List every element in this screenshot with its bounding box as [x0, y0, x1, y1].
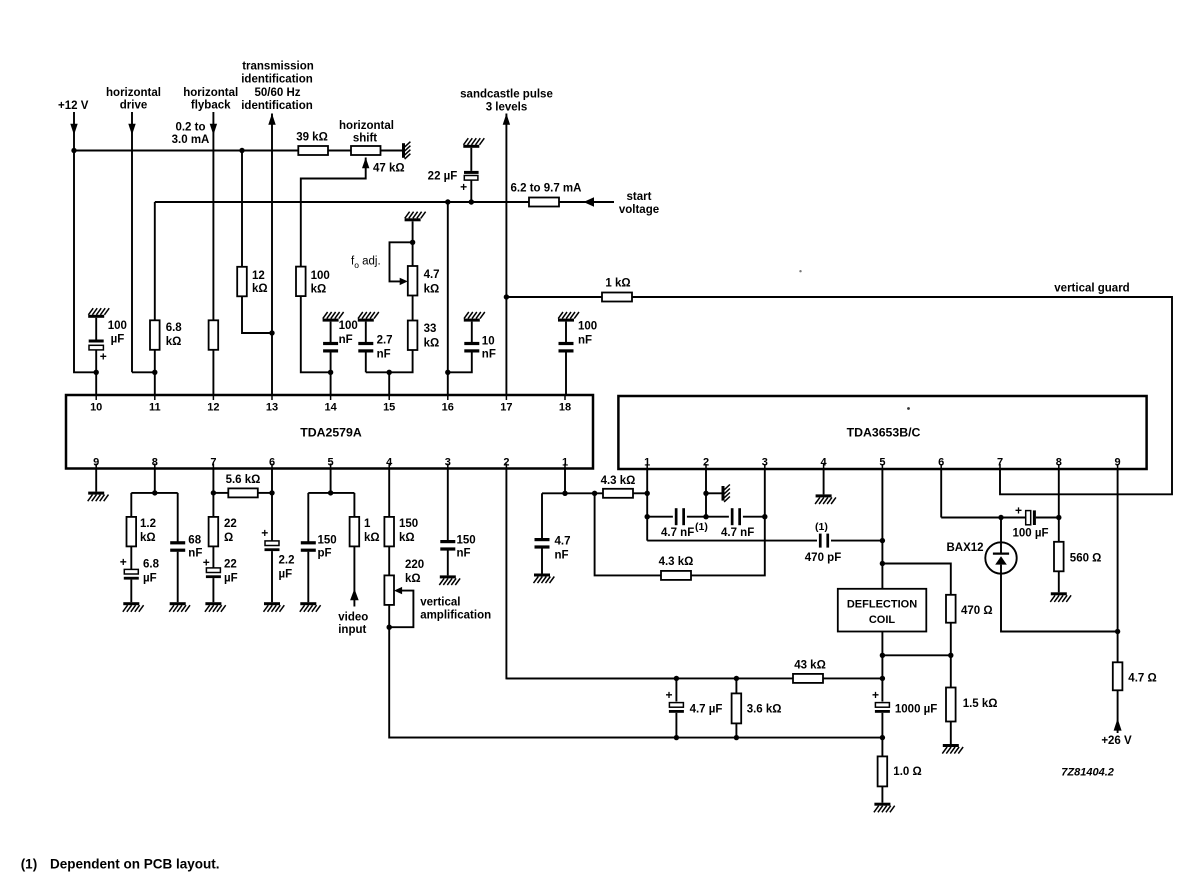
svg-text:+: +: [460, 180, 467, 194]
junction pin 7 node: [211, 490, 216, 495]
wire 1.5k stub: [950, 655, 952, 688]
wire pin7 to 5.6k: [213, 492, 228, 494]
wire 4.7uF top stub: [675, 678, 677, 701]
svg-text:4.3 kΩ: 4.3 kΩ: [601, 475, 636, 487]
wire 1000uF to rail B: [881, 713, 883, 738]
wire ground to 4.7k pot: [412, 221, 414, 266]
sandcastle output arrow: [503, 114, 510, 125]
svg-text:horizontal: horizontal: [183, 87, 238, 99]
label + of 22uF pin7: [203, 556, 210, 570]
junction Q8 100uF: [1056, 515, 1061, 520]
resistor 150 kOhm: [384, 517, 394, 547]
svg-text:10: 10: [90, 402, 102, 414]
wire Q8 vertical: [1058, 469, 1060, 542]
wire horizontal drive to pin 11: [132, 371, 155, 373]
svg-text:4.7 nF: 4.7 nF: [661, 527, 694, 539]
capacitor 470 pF: [819, 534, 829, 548]
resistor 1 kOhm guard: [602, 293, 632, 302]
chassis ground at Q2: [722, 485, 730, 502]
node sandcastle pulse label: [460, 89, 553, 114]
resistor 5.6 kOhm: [228, 488, 257, 497]
wire 100nF to pin 18: [565, 352, 567, 395]
svg-text:drive: drive: [120, 100, 148, 112]
node +12V supply label: [58, 100, 89, 112]
svg-text:6.8: 6.8: [166, 322, 183, 334]
svg-text:4.7: 4.7: [555, 536, 571, 548]
svg-text:shift: shift: [353, 133, 377, 145]
svg-text:2: 2: [703, 457, 709, 469]
svg-text:1: 1: [562, 457, 568, 469]
junction 3.6k rail A: [734, 676, 739, 681]
+12V input arrow: [70, 124, 77, 135]
junction pin 10 node: [94, 370, 99, 375]
wire 68nF to ground: [177, 552, 179, 603]
wire Q9 vertical: [1117, 469, 1119, 662]
svg-text:3 levels: 3 levels: [486, 101, 528, 113]
wire 100nF to pin 14 node: [330, 352, 332, 372]
wire BAX12 anode: [1000, 518, 1002, 543]
capacitor 10 nF: [464, 342, 479, 353]
wire resistor to pin 12: [212, 350, 214, 395]
svg-text:150: 150: [318, 535, 337, 547]
wire 6.8k to pin 11 node: [154, 350, 156, 373]
junction pin 1 node: [562, 491, 567, 496]
label 2.7 nF: [377, 335, 393, 361]
capacitor 150 nF: [440, 540, 455, 551]
svg-text:horizontal: horizontal: [339, 120, 394, 132]
svg-text:5: 5: [328, 457, 334, 469]
wire pin 15 stub: [388, 372, 390, 395]
resistor start current: [529, 198, 559, 207]
svg-text:16: 16: [442, 402, 454, 414]
label 47 kOhm: [373, 163, 405, 175]
svg-text:1.5 kΩ: 1.5 kΩ: [963, 698, 998, 710]
wire to 68nF: [177, 493, 179, 542]
wire 100uF to Q8: [1036, 517, 1059, 519]
wire tee down to second 4.3k: [595, 493, 661, 575]
label 4.7 nF b: [721, 527, 754, 539]
capacitor 2.2 uF electrolytic: [265, 541, 280, 551]
wire pin 14 stub: [330, 372, 332, 395]
resistor series pin 12 (unlabelled): [209, 320, 219, 350]
junction Q1 4.7nF row: [645, 514, 650, 519]
label 560 Ohm: [1070, 553, 1102, 565]
junction bus1 / 12k resistor: [239, 148, 244, 153]
horizontal flyback input arrow: [210, 124, 217, 135]
speck above TDA3653: [907, 407, 910, 410]
capacitor 4.7 nF pin1: [535, 538, 550, 549]
wire 22uF to bus2: [470, 180, 472, 202]
svg-text:14: 14: [324, 402, 337, 414]
svg-text:3.0 mA: 3.0 mA: [172, 134, 210, 146]
potentiometer 220 kOhm: [384, 575, 394, 605]
node horizontal drive label: [106, 87, 161, 112]
label 1.5 kOhm: [963, 698, 998, 710]
label 7Z81404.2: [1061, 767, 1114, 779]
ground 2.2uF: [264, 602, 285, 612]
label 22 Ohm: [224, 518, 237, 544]
junction Q5 470R top tap: [880, 561, 885, 566]
svg-text:1 kΩ: 1 kΩ: [605, 278, 630, 290]
wire pin 2 down and right: [506, 469, 676, 679]
svg-text:100: 100: [578, 321, 597, 333]
transmission identification output arrow: [268, 114, 275, 125]
svg-text:1000 µF: 1000 µF: [895, 703, 937, 715]
capacitor 22 uF electrolytic: [464, 171, 479, 180]
junction Q1 node A: [645, 491, 650, 496]
resistor 1.5 kOhm: [946, 688, 956, 722]
diode BAX12: [985, 542, 1016, 573]
wire pin 6 vertical: [271, 469, 273, 542]
wire gnd to 100nF pin18: [565, 322, 567, 342]
svg-text:kΩ: kΩ: [424, 337, 440, 349]
wire pin 3 stub: [447, 469, 449, 541]
label 100 uF horizontal: [1012, 528, 1048, 540]
svg-text:pF: pF: [318, 548, 332, 560]
wire 220k wiper loop: [389, 591, 413, 628]
op-amp IC U2 TDA3653B/C box: [618, 396, 1146, 469]
resistor 560 Ohm: [1054, 542, 1064, 572]
svg-text:12: 12: [252, 270, 265, 282]
svg-text:+: +: [665, 688, 672, 702]
label 22 uF: [428, 171, 458, 183]
svg-text:kΩ: kΩ: [424, 283, 440, 295]
label 4.7 kOhm: [424, 269, 440, 295]
label 6.2 to 9.7 mA: [511, 183, 582, 195]
svg-text:0.2 to: 0.2 to: [175, 122, 205, 134]
svg-text:Ω: Ω: [224, 532, 233, 544]
wire Q6 to 100uF: [941, 517, 1026, 519]
svg-text:150: 150: [399, 518, 418, 530]
junction Q9 BAX12: [1115, 629, 1120, 634]
wire rail B horizontal: [389, 737, 882, 739]
svg-text:17: 17: [500, 402, 512, 414]
svg-text:8: 8: [1056, 457, 1062, 469]
wire 33k down to pin15 row: [366, 350, 413, 372]
svg-text:input: input: [338, 624, 366, 636]
wire +12V horizontal bus: [74, 150, 298, 152]
node horizontal flyback label: [183, 87, 238, 112]
svg-text:+: +: [872, 688, 879, 702]
wire pin 8 stub: [154, 469, 156, 493]
wire coil bottom to rail A: [881, 632, 883, 679]
svg-text:amplification: amplification: [420, 610, 491, 622]
svg-text:33: 33: [424, 323, 437, 335]
svg-text:kΩ: kΩ: [140, 532, 156, 544]
ground above 100nF pin18: [558, 312, 579, 322]
wire 470R bottom: [882, 623, 950, 656]
wire sandcastle vertical pin 17: [505, 114, 507, 396]
junction 470R/1.5k node: [948, 653, 953, 658]
svg-text:Dependent on PCB layout.: Dependent on PCB layout.: [50, 857, 220, 872]
wiper arrow 220k pot: [394, 587, 402, 594]
label + of 2.2uF: [261, 526, 268, 540]
junction pin 15 node: [387, 370, 392, 375]
svg-text:nF: nF: [339, 334, 353, 346]
svg-text:kΩ: kΩ: [399, 532, 415, 544]
svg-text:4.7 µF: 4.7 µF: [690, 703, 723, 715]
wire 560R to ground: [1058, 571, 1060, 592]
capacitor 4.7 nF a: [675, 508, 685, 525]
svg-text:18: 18: [559, 402, 571, 414]
svg-text:identification: identification: [241, 74, 313, 86]
svg-text:4.7: 4.7: [424, 269, 440, 281]
node transmission identification label: [241, 61, 314, 113]
svg-text:100 µF: 100 µF: [1012, 528, 1048, 540]
pin numbers TDA3653B/C: [644, 457, 1121, 469]
junction 3.6k rail B: [734, 735, 739, 740]
svg-text:identification: identification: [241, 100, 313, 112]
svg-text:4: 4: [821, 457, 828, 469]
wire gnd to 100nF: [330, 322, 332, 342]
svg-text:+: +: [1015, 504, 1022, 518]
ground pin 9: [88, 492, 109, 502]
junction bus2 / 22uF: [469, 199, 474, 204]
svg-text:µF: µF: [224, 573, 238, 585]
wire 1.0R to ground: [881, 786, 883, 802]
svg-text:1.0 Ω: 1.0 Ω: [893, 766, 921, 778]
wire pin 7 stub: [212, 469, 214, 517]
svg-text:sandcastle pulse: sandcastle pulse: [460, 89, 553, 101]
svg-text:COIL: COIL: [869, 614, 896, 626]
wire 10nF to pin 16: [448, 352, 472, 372]
label 150 kOhm: [399, 518, 418, 544]
label vertical amplification: [420, 597, 491, 622]
svg-text:4.7 nF: 4.7 nF: [721, 527, 754, 539]
label 100 kOhm: [311, 270, 330, 295]
wire pin 1 stub: [564, 469, 566, 494]
junction pin 8 node: [152, 490, 157, 495]
ground 68nF: [169, 602, 190, 612]
svg-text:video: video: [338, 612, 368, 624]
capacitor 150 pF: [301, 541, 316, 552]
svg-text:39 kΩ: 39 kΩ: [296, 132, 328, 144]
wire Q2 vertical: [705, 469, 707, 517]
capacitor 4.7 nF b: [731, 508, 741, 525]
svg-text:start: start: [627, 191, 652, 203]
resistor 1.2 kOhm: [127, 517, 137, 547]
ground 1.5k: [942, 744, 963, 754]
label 1000 uF: [895, 703, 937, 715]
label 470 pF: [805, 552, 841, 564]
wire +12V vertical drop: [73, 112, 75, 151]
label vertical guard: [1054, 283, 1129, 295]
wire pin 4 down to bottom rail: [389, 605, 676, 738]
wire to 1.2k: [130, 493, 132, 517]
svg-text:6: 6: [938, 457, 944, 469]
label + of 4.7uF: [665, 688, 672, 702]
svg-text:5: 5: [879, 457, 885, 469]
wire pot to chassis ground: [381, 150, 403, 152]
resistor 100 kOhm: [296, 267, 306, 297]
wire 22R to 22uF: [212, 546, 214, 568]
svg-text:220: 220: [405, 559, 424, 571]
junction Q3 4.7nF row: [762, 514, 767, 519]
label 4.7 nF pin1: [555, 536, 571, 562]
wire 4.7nF to ground: [541, 549, 543, 574]
junction 12k / pin 13 line: [269, 330, 274, 335]
wire bus2 horizontal: [155, 201, 529, 203]
svg-text:560 Ω: 560 Ω: [1070, 553, 1102, 565]
label BAX12: [946, 542, 983, 554]
svg-text:13: 13: [266, 402, 278, 414]
ground above 22uF: [463, 138, 484, 148]
svg-text:(1): (1): [695, 521, 708, 533]
+26V supply arrow: [1114, 719, 1122, 731]
node 0.2 to 3.0 mA label: [172, 122, 210, 146]
label 5.6 kOhm: [226, 474, 261, 486]
svg-text:DEFLECTION: DEFLECTION: [847, 599, 917, 611]
junction f0 feedback tap: [410, 240, 415, 245]
junction BAX12 top: [998, 515, 1003, 520]
svg-text:horizontal: horizontal: [106, 87, 161, 99]
svg-text:nF: nF: [377, 348, 391, 360]
junction pin 11 node: [152, 370, 157, 375]
ground above 2.7nF: [358, 312, 379, 322]
junction 4.3k tee: [592, 491, 597, 496]
capacitor 100 nF (pin 14): [323, 342, 338, 353]
wire 470pF row: [647, 540, 817, 542]
ground 6.8uF: [123, 602, 144, 612]
resistor 4.3 kOhm second: [661, 571, 691, 580]
wire pin 11 stub: [154, 372, 156, 395]
wire 100uF to pin 10 node: [95, 350, 97, 372]
label 1.0 Ohm: [893, 766, 921, 778]
svg-text:4.3 kΩ: 4.3 kΩ: [659, 556, 694, 568]
junction 10nF / pin16: [445, 370, 450, 375]
wire to 150pF: [307, 493, 309, 542]
wire rail A horizontal: [506, 677, 882, 679]
op-amp IC U1 TDA2579A box: [66, 395, 593, 469]
ground 150nF: [439, 575, 460, 585]
label f0 adj.: [351, 256, 381, 271]
wire Q1 vertical: [646, 469, 648, 541]
wire 1k to video input: [353, 546, 355, 606]
wire pot to 33k: [412, 296, 414, 321]
wire vertical guard long: [632, 297, 1172, 494]
wire Q4 stub: [823, 469, 825, 494]
wire pin1 left to 4.7nF: [542, 492, 565, 494]
wire to 1k video: [353, 493, 355, 517]
label 3.6 kOhm: [747, 703, 782, 715]
label 22 uF pin7: [224, 559, 238, 585]
wire bus2 left drop to 6.8k: [154, 202, 156, 320]
label + of 22uF: [460, 180, 467, 194]
label 39 kOhm: [296, 132, 328, 144]
label 4.3 kOhm second: [659, 556, 694, 568]
svg-text:15: 15: [383, 402, 395, 414]
ground 22uF pin7: [205, 602, 226, 612]
wire 150k to 220k pot: [388, 546, 390, 575]
svg-text:6.2 to 9.7 mA: 6.2 to 9.7 mA: [511, 183, 582, 195]
svg-text:kΩ: kΩ: [311, 283, 327, 295]
wire Q5 to 470R top: [882, 564, 950, 595]
junction pin 5 node: [328, 490, 333, 495]
svg-text:4: 4: [386, 457, 393, 469]
svg-text:100: 100: [108, 320, 127, 332]
svg-text:+26 V: +26 V: [1101, 735, 1132, 747]
svg-text:4.7 Ω: 4.7 Ω: [1128, 673, 1156, 685]
wire start voltage lead: [559, 201, 614, 203]
junction coil bottom node: [880, 653, 885, 658]
svg-text:(1): (1): [21, 857, 38, 872]
svg-text:+12 V: +12 V: [58, 100, 89, 112]
ground above 4.7k pot: [405, 212, 426, 222]
resistor 1.0 Ohm: [878, 756, 888, 786]
wire 1.5k to ground: [950, 722, 952, 745]
label 1.2 kOhm: [140, 518, 156, 544]
wire 2.7nF to pin 15 row: [365, 352, 367, 372]
wire Q2 to chassis ground: [706, 492, 722, 494]
label + of 100uF: [1015, 504, 1022, 518]
resistor 4.3 kOhm first: [603, 489, 633, 498]
wire 2.2uF to ground: [271, 551, 273, 602]
junction Q5 470pF: [880, 538, 885, 543]
label + of 100uF pin10: [100, 350, 107, 364]
svg-text:9: 9: [93, 457, 99, 469]
label 100 uF pin10: [108, 320, 127, 346]
svg-text:+: +: [120, 555, 127, 569]
potentiometer horizontal shift 47 kOhm: [351, 146, 381, 155]
svg-text:2: 2: [503, 457, 509, 469]
capacitor 1000 uF electrolytic: [875, 703, 890, 713]
label (1) of 470pF: [815, 521, 828, 533]
junction Q2 4.7nF row: [703, 514, 708, 519]
wire pin17 to 1k: [506, 296, 602, 298]
label +26 V: [1101, 735, 1132, 747]
wire wiper down-left to 100k: [301, 158, 366, 267]
label 1 kOhm video: [364, 518, 380, 544]
label video input: [338, 612, 368, 637]
wire 22uF to ground: [212, 578, 214, 602]
junction Q5 rail A: [880, 676, 885, 681]
label start voltage: [619, 191, 659, 216]
label 150 pF: [318, 535, 337, 560]
wire 4.7uF bottom stub: [675, 713, 677, 738]
ground above 100uF pin10: [88, 308, 109, 318]
svg-text:kΩ: kΩ: [364, 532, 380, 544]
wiper arrow 47k: [362, 158, 369, 169]
capacitor 68 nF: [170, 541, 185, 552]
wire 470pF to Q5: [831, 540, 882, 542]
wire horizontal drive vertical: [131, 112, 133, 372]
wire 150pF to ground: [307, 552, 309, 603]
junction bus2 / pin 16 line: [445, 199, 450, 204]
start voltage arrow: [584, 197, 595, 206]
ground above 10nF: [464, 312, 485, 322]
label 1 kOhm guard: [605, 278, 630, 290]
svg-text:47 kΩ: 47 kΩ: [373, 163, 405, 175]
junction rail B right end: [880, 735, 885, 740]
svg-text:TDA2579A: TDA2579A: [300, 426, 362, 440]
wire 100k to pin 14 row: [301, 296, 331, 372]
capacitor 22 uF electrolytic pin7: [206, 568, 221, 578]
svg-text:6: 6: [269, 457, 275, 469]
wire 4.7R to +26V: [1117, 690, 1119, 733]
label 470 Ohm: [961, 605, 993, 617]
svg-text:(1): (1): [815, 521, 828, 533]
svg-text:22: 22: [224, 518, 237, 530]
resistor 33 kOhm: [408, 321, 418, 351]
ground above 100nF pin14: [323, 312, 344, 322]
wire pin 8 node horizontal: [131, 492, 177, 494]
speck left of TDA3653: [799, 270, 801, 272]
pin numbers TDA2579A: [90, 402, 571, 469]
wire ground to 22uF: [470, 148, 472, 171]
wire pin1 right to 4.3k: [565, 492, 603, 494]
svg-text:nF: nF: [482, 348, 496, 360]
label 4.7 uF: [690, 703, 723, 715]
